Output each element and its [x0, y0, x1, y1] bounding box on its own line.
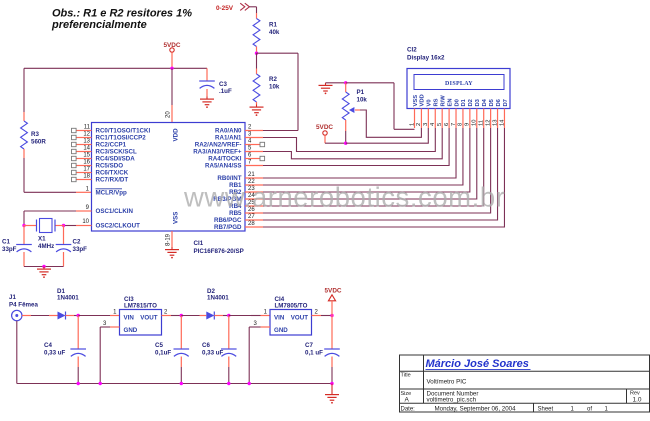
- pin 3 RA1/AN1: [215, 132, 263, 142]
- svg-text:33pF: 33pF: [73, 246, 88, 253]
- svg-text:CI1: CI1: [194, 240, 204, 247]
- svg-text:0-25V: 0-25V: [216, 5, 234, 12]
- svg-text:13: 13: [492, 120, 498, 126]
- capacitor C6: [221, 316, 237, 384]
- svg-text:VIN: VIN: [124, 315, 135, 322]
- node junction C4: [77, 314, 80, 317]
- wire junction to display V0: [346, 128, 429, 143]
- port 0-25V: [216, 3, 249, 12]
- label C4 0,33 uF: [44, 342, 66, 357]
- wire RA1 to display RS: [263, 128, 435, 152]
- svg-text:12: 12: [485, 120, 491, 126]
- svg-text:1N4001: 1N4001: [207, 295, 229, 302]
- pin 22 RB1: [229, 179, 263, 189]
- pin 27 RB6/PGC: [214, 214, 263, 224]
- node junction caps bottom: [42, 265, 45, 268]
- power symbol 5VDC (supply output): [325, 288, 342, 301]
- svg-text:D3: D3: [475, 98, 481, 106]
- svg-text:7: 7: [451, 123, 457, 126]
- pin 26 RB5: [229, 207, 263, 217]
- pin 2 RA0/AN0: [215, 125, 263, 135]
- svg-text:of: of: [587, 406, 592, 412]
- svg-text:10k: 10k: [269, 84, 280, 91]
- svg-text:EN: EN: [447, 98, 453, 106]
- resistor R1: [253, 13, 260, 53]
- svg-text:R/W: R/W: [440, 95, 446, 107]
- svg-text:Display 16x2: Display 16x2: [407, 55, 445, 62]
- pin 1 MCLR stub: [76, 191, 92, 193]
- pin 17 RC6/TX/CK: [72, 167, 129, 177]
- pin 23 RB2: [229, 186, 263, 196]
- pin 5 RA3/AN3/VREF+: [193, 146, 263, 156]
- wire CI3 VOUT: [162, 315, 182, 317]
- svg-text:R1: R1: [269, 22, 277, 29]
- svg-text:RA3/AN3/VREF+: RA3/AN3/VREF+: [193, 149, 242, 156]
- pin 16 RC5/SDO: [72, 160, 124, 170]
- node junction crystal left: [22, 224, 25, 227]
- pin 14 RC3/SCK/SCL: [72, 146, 137, 156]
- svg-text:4MHz: 4MHz: [38, 243, 54, 250]
- display module CI2: [407, 69, 510, 109]
- capacitor C4: [70, 316, 86, 384]
- label C3 .1uF: [219, 81, 232, 95]
- ground left of P1: [325, 83, 327, 86]
- svg-text:OSC1/CLKIN: OSC1/CLKIN: [96, 208, 134, 215]
- label CI1 PIC16F876-20/SP: [194, 240, 244, 255]
- wire crystal caps bottom: [24, 266, 64, 268]
- connector J1 P4 Femea: [9, 294, 38, 321]
- svg-text:D4: D4: [482, 98, 488, 106]
- display pin 14 stub: [503, 109, 505, 129]
- diode D2 1N4001: [206, 288, 229, 320]
- wire VSS net to display: [346, 83, 415, 130]
- pin 8-19 VSS stub: [171, 231, 173, 247]
- svg-text:1: 1: [409, 123, 415, 126]
- wire wiper to display VDD: [360, 110, 421, 137]
- capacitor C1: [16, 226, 32, 267]
- wire CI3 GND to rail: [100, 327, 119, 384]
- diode D1 1N4001: [57, 288, 79, 320]
- capacitor C7: [324, 316, 340, 384]
- capacitor C5: [174, 316, 190, 384]
- pin 1 MCLR/Vpp label: [96, 189, 127, 197]
- display pin 1 stub: [414, 109, 416, 129]
- label C5 0,1uF: [155, 342, 171, 357]
- pin 28 RB7/PGD: [214, 221, 263, 231]
- svg-text:10: 10: [472, 120, 478, 126]
- svg-text:560R: 560R: [31, 139, 46, 146]
- regulator CI4 LM7805: [254, 296, 319, 335]
- svg-text:0,33 uF: 0,33 uF: [202, 350, 224, 357]
- svg-text:15: 15: [83, 153, 90, 159]
- svg-text:P4 Fêmea: P4 Fêmea: [9, 302, 38, 309]
- svg-text:Date:: Date:: [401, 406, 416, 412]
- power symbol 5VDC (top): [163, 42, 180, 52]
- wire to VIN CI3: [78, 315, 119, 317]
- svg-text:MCLR/Vpp: MCLR/Vpp: [96, 190, 127, 197]
- svg-text:5: 5: [437, 123, 443, 126]
- capacitor C2: [56, 226, 72, 267]
- resistor R3: [21, 112, 28, 158]
- display pin 13 stub: [497, 109, 499, 129]
- svg-text:PIC16F876-20/SP: PIC16F876-20/SP: [194, 248, 244, 255]
- svg-text:D6: D6: [496, 98, 502, 106]
- svg-text:D0: D0: [454, 99, 460, 106]
- display pin 10 stub: [476, 109, 478, 129]
- svg-text:C2: C2: [73, 239, 81, 246]
- svg-text:X1: X1: [38, 236, 46, 243]
- wire RB4 to display D4: [263, 128, 484, 206]
- wire VDD drop: [171, 68, 173, 105]
- wire P1 bottom: [345, 131, 347, 143]
- wire RB0 to display D0: [263, 128, 456, 178]
- svg-text:10: 10: [82, 219, 89, 225]
- pin 9 OSC1/CLKIN: [76, 205, 134, 215]
- svg-text:www.arnerobotics.com.br: www.arnerobotics.com.br: [183, 182, 505, 213]
- label X1 4MHz: [38, 236, 54, 251]
- pin 11 RC0/T1OSO/T1CKI: [72, 125, 151, 135]
- wire RA3 to display R/W: [263, 128, 442, 159]
- wire to R3: [23, 68, 25, 112]
- svg-text:17: 17: [83, 167, 90, 173]
- title block Title row: [401, 373, 467, 386]
- svg-text:P1: P1: [357, 89, 365, 96]
- svg-text:Obs.: R1 e R2 resitores 1%: Obs.: R1 e R2 resitores 1%: [52, 8, 192, 20]
- svg-text:11: 11: [479, 120, 485, 126]
- display pin 12 stub: [490, 109, 492, 129]
- wire port to R1: [249, 7, 256, 13]
- node junction rail x=100.2: [99, 382, 102, 385]
- ground under C3: [206, 97, 208, 100]
- op-amp/micro CI1 PIC16F876 body: [92, 123, 246, 232]
- wire R3 to MCLR: [24, 158, 76, 192]
- crystal X1: [24, 219, 64, 233]
- svg-text:VSS: VSS: [173, 212, 180, 224]
- label CI2 Display 16x2: [407, 47, 445, 62]
- pin 7 RA5/AN4/SS: [205, 160, 263, 170]
- display pin 3 stub: [427, 109, 429, 129]
- node junction crystal right: [62, 224, 65, 227]
- title block Date row: [401, 405, 609, 412]
- svg-text:Voltímetro PIC: Voltímetro PIC: [427, 379, 467, 386]
- svg-text:VOUT: VOUT: [291, 315, 308, 322]
- svg-text:LM7805/TO: LM7805/TO: [275, 303, 308, 310]
- svg-text:8: 8: [458, 123, 464, 126]
- svg-text:RC6/TX/CK: RC6/TX/CK: [96, 170, 129, 177]
- svg-text:5VDC: 5VDC: [316, 124, 333, 131]
- node junction R1/R2: [255, 52, 258, 55]
- svg-text:VIN: VIN: [274, 315, 285, 322]
- potentiometer P1: [342, 83, 360, 131]
- svg-text:LM7815/TO: LM7815/TO: [124, 303, 157, 310]
- svg-text:J1: J1: [9, 294, 16, 301]
- node junction C5: [180, 314, 183, 317]
- node junction rail x=332: [330, 382, 333, 385]
- wire J1 to D1: [22, 315, 58, 317]
- pin 25 RB4: [229, 200, 263, 210]
- svg-text:Márcio José Soares: Márcio José Soares: [426, 358, 529, 370]
- svg-text:RC2/CCP1: RC2/CCP1: [96, 142, 127, 149]
- svg-text:2: 2: [416, 123, 422, 126]
- wire D2 to CI4: [214, 315, 229, 317]
- wire RB5 to display D5: [263, 128, 491, 213]
- pin 15 RC4/SDI/SDA: [72, 153, 136, 163]
- wire D1 to CI3: [66, 315, 79, 317]
- label C1 33pF: [2, 239, 17, 254]
- svg-text:14: 14: [499, 119, 505, 126]
- svg-text:0,1 uF: 0,1 uF: [305, 350, 323, 357]
- pin 20 VDD stub: [171, 105, 173, 123]
- svg-text:V0: V0: [427, 99, 433, 106]
- svg-text:RC0/T1OSO/T1CKI: RC0/T1OSO/T1CKI: [96, 128, 151, 135]
- wire CI4 VOUT to 5VDC: [312, 315, 333, 317]
- svg-text:Sheet: Sheet: [538, 406, 554, 412]
- pin 24 RB3/PGM: [213, 193, 263, 203]
- svg-text:14: 14: [83, 146, 90, 152]
- pin 18 RC7/RX/DT: [72, 174, 129, 184]
- svg-text:28: 28: [248, 221, 255, 227]
- label R2 10k: [269, 76, 280, 91]
- svg-text:8-19: 8-19: [166, 233, 172, 246]
- ground under rail: [325, 384, 339, 404]
- node junction C6: [227, 314, 230, 317]
- pin 10 OSC2/CLKOUT: [76, 219, 140, 230]
- svg-text:Title: Title: [401, 373, 411, 379]
- note text Obs: [51, 8, 192, 32]
- svg-text:0,1uF: 0,1uF: [155, 350, 171, 357]
- wire C5 to D2: [181, 315, 206, 317]
- svg-text:5VDC: 5VDC: [325, 288, 342, 295]
- pin 21 RB0/INT: [217, 172, 263, 182]
- svg-text:RA4/TOCKI: RA4/TOCKI: [208, 156, 242, 163]
- wire 5VDC to junction: [325, 135, 346, 143]
- svg-text:preferencialmente: preferencialmente: [51, 19, 147, 31]
- svg-text:GND: GND: [274, 327, 288, 334]
- svg-text:RC3/SCK/SCL: RC3/SCK/SCL: [96, 149, 137, 156]
- svg-text:40k: 40k: [269, 29, 280, 36]
- svg-text:R3: R3: [31, 131, 39, 138]
- svg-text:0,33 uF: 0,33 uF: [44, 350, 66, 357]
- wire ground to P1 top: [326, 82, 346, 84]
- title block Size/Document/Rev row: [401, 390, 642, 403]
- ground under R2: [256, 105, 258, 108]
- title block frame: [400, 355, 650, 412]
- svg-text:33pF: 33pF: [2, 246, 17, 253]
- node junction 5VDC/VDD: [170, 67, 173, 70]
- node junction rail x=249.2: [248, 382, 251, 385]
- display pin 5 stub: [441, 109, 443, 129]
- svg-text:.1uF: .1uF: [219, 88, 232, 95]
- svg-text:RB6/PGC: RB6/PGC: [214, 217, 242, 224]
- svg-text:VOUT: VOUT: [140, 315, 157, 322]
- label C6 0,33 uF: [202, 342, 224, 357]
- svg-text:C5: C5: [155, 342, 163, 349]
- display pin 8 stub: [462, 109, 464, 129]
- svg-text:C4: C4: [44, 342, 52, 349]
- wire RB7 to display D7: [263, 128, 504, 227]
- svg-text:VDD: VDD: [420, 94, 426, 106]
- wire J1 down: [16, 321, 18, 384]
- svg-text:16: 16: [83, 160, 90, 166]
- wire 5VDC drop to C7: [331, 301, 333, 316]
- svg-text:11: 11: [84, 125, 91, 131]
- svg-text:RS: RS: [434, 98, 440, 106]
- svg-text:6: 6: [444, 123, 450, 126]
- svg-text:D1: D1: [461, 98, 467, 106]
- svg-text:VDD: VDD: [173, 128, 180, 142]
- svg-text:20: 20: [166, 111, 172, 118]
- display pin 11 stub: [483, 109, 485, 129]
- svg-text:3: 3: [423, 123, 429, 126]
- label C2 33pF: [73, 239, 88, 254]
- pin 12 RC1/T1OSI/CCP2: [72, 132, 147, 142]
- wire RB6 to display D6: [263, 128, 498, 220]
- wire C6 to VIN CI4: [229, 315, 270, 317]
- ground under crystal: [43, 267, 45, 270]
- display pin 9 stub: [469, 109, 471, 129]
- node junction P1 bottom: [344, 142, 347, 145]
- svg-text:RA0/AN0: RA0/AN0: [215, 128, 242, 135]
- svg-text:RC5/SDO: RC5/SDO: [96, 163, 124, 170]
- svg-text:RA1/AN1: RA1/AN1: [215, 135, 242, 142]
- svg-text:9: 9: [465, 123, 471, 126]
- svg-text:CI2: CI2: [407, 47, 417, 54]
- svg-text:C6: C6: [202, 342, 210, 349]
- svg-text:RA2/AN2/VREF-: RA2/AN2/VREF-: [195, 142, 242, 149]
- svg-text:C3: C3: [219, 81, 227, 88]
- svg-text:D2: D2: [468, 99, 474, 106]
- svg-text:RC1/T1OSI/CCP2: RC1/T1OSI/CCP2: [96, 135, 147, 142]
- wire RB3 to display D3: [263, 128, 477, 199]
- wire divider to RA0: [257, 53, 299, 130]
- label P1 10k: [357, 89, 368, 104]
- pin 4 RA2/AN2/VREF-: [195, 139, 265, 149]
- svg-text:voltimetro_pic.sch: voltimetro_pic.sch: [427, 396, 477, 403]
- label C7 0,1 uF: [305, 342, 323, 357]
- svg-text:C7: C7: [305, 342, 313, 349]
- svg-text:12: 12: [83, 132, 90, 138]
- display pin 6 stub: [448, 109, 450, 129]
- display pin 4 stub: [434, 109, 436, 129]
- svg-text:VSS: VSS: [413, 95, 419, 107]
- svg-text:D5: D5: [489, 98, 495, 106]
- svg-text:21: 21: [248, 172, 255, 178]
- title block author name: [426, 358, 531, 370]
- node junction rail x=228.8: [227, 382, 230, 385]
- svg-text:RB7/PGD: RB7/PGD: [214, 224, 242, 231]
- svg-text:13: 13: [83, 139, 90, 145]
- svg-text:RC7/RX/DT: RC7/RX/DT: [96, 177, 129, 184]
- node junction C7/5VDC: [330, 314, 333, 317]
- pin 13 RC2/CCP1: [72, 139, 127, 149]
- svg-text:GND: GND: [124, 327, 138, 334]
- resistor R2: [253, 53, 260, 104]
- svg-text:D7: D7: [503, 99, 509, 106]
- svg-text:18: 18: [83, 174, 90, 180]
- node junction rail x=78.2: [77, 382, 80, 385]
- regulator CI3 LM7815: [103, 296, 168, 335]
- svg-text:RC4/SDI/SDA: RC4/SDI/SDA: [96, 156, 136, 163]
- svg-text:1N4001: 1N4001: [57, 295, 79, 302]
- wire RB1 to display D1: [263, 128, 463, 185]
- svg-text:A: A: [405, 397, 410, 404]
- label R1 40k: [269, 22, 280, 37]
- ground under VSS: [171, 247, 173, 250]
- wire 5VDC horizontal rail: [24, 67, 207, 69]
- pin 6 RA4/TOCKI: [208, 153, 264, 163]
- svg-text:Monday, September 06, 2004: Monday, September 06, 2004: [435, 405, 517, 412]
- wire RA5 to display EN: [263, 128, 449, 166]
- svg-text:C1: C1: [2, 239, 10, 246]
- svg-text:10k: 10k: [357, 97, 368, 104]
- display pin 7 stub: [455, 109, 457, 129]
- power symbol 5VDC (P1): [316, 124, 333, 135]
- svg-text:1.0: 1.0: [633, 396, 642, 403]
- node junction P1 top: [344, 81, 347, 84]
- wire 5VDC drop: [171, 52, 173, 68]
- svg-text:OSC2/CLKOUT: OSC2/CLKOUT: [96, 223, 141, 230]
- display pin 2 stub: [420, 109, 422, 129]
- wire CI4 GND to rail: [249, 327, 270, 384]
- capacitor C3: [199, 68, 215, 96]
- wire ground rail: [17, 383, 332, 385]
- svg-text:RA5/AN4/SS: RA5/AN4/SS: [205, 163, 241, 170]
- wire OSC1 to crystal: [24, 211, 76, 226]
- svg-text:R2: R2: [269, 76, 277, 83]
- node junction rail x=181.3: [180, 382, 183, 385]
- wire RB2 to display D2: [263, 128, 470, 192]
- wire OSC2 to crystal: [64, 225, 77, 227]
- label R3 560R: [31, 131, 46, 146]
- svg-text:27: 27: [248, 214, 255, 220]
- svg-text:DISPLAY: DISPLAY: [445, 81, 473, 87]
